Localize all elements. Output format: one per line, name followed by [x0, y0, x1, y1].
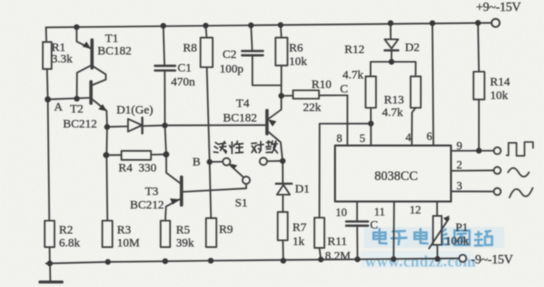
waveform square — [507, 142, 533, 156]
resistor R1 body — [43, 42, 52, 69]
resistor R4 body — [121, 151, 151, 160]
node pin11 bottom — [391, 256, 397, 262]
resistor R10 leads — [281, 94, 347, 97]
node pin10 bottom — [355, 256, 361, 262]
wire D1 R7 branch — [282, 161, 284, 184]
resistor R11 — [319, 124, 321, 260]
node D1Ge anode — [104, 124, 110, 130]
node R9 bottom — [208, 258, 214, 264]
wire node A horizontal — [48, 98, 90, 100]
wire pin 9 output — [451, 150, 494, 152]
wire T1 collector to rail — [77, 27, 91, 48]
node T1 collector on rail — [74, 24, 80, 30]
resistor R2 body — [45, 221, 55, 247]
node R3 bottom — [105, 259, 111, 265]
node R14 on rail — [475, 20, 481, 26]
node R5 bottom — [162, 258, 168, 264]
wire log contact to D1 node — [267, 160, 283, 162]
node P1 bottom — [435, 256, 441, 262]
node R12 bottom pin5 — [368, 121, 374, 127]
wire pin 3 output — [451, 190, 494, 192]
wire R12 R13 split — [371, 62, 416, 77]
node D2 on rail — [388, 20, 394, 26]
wire top supply rail — [46, 23, 491, 28]
wire T2 collector down — [92, 99, 107, 220]
diode D1 — [276, 183, 292, 185]
wire R8 B R9 vertical — [206, 26, 211, 219]
potentiometer P1 arrow — [443, 216, 449, 223]
label switch log (dui shu) CJK approximated strokes — [252, 141, 278, 153]
node C2 on rail — [248, 22, 254, 28]
node R11 bottom — [318, 257, 324, 263]
node R4 left — [103, 152, 109, 158]
terminal pin 9 — [494, 147, 501, 154]
transistor T3 collector — [166, 173, 180, 183]
resistor R7 body — [278, 212, 288, 240]
node R6 bottom — [278, 93, 284, 99]
transistor T3 arrow — [170, 198, 180, 204]
ground — [49, 264, 51, 281]
wire left vertical branch R1/R2 — [46, 27, 50, 263]
wire pin 11 — [393, 202, 396, 260]
resistor R6 — [280, 25, 283, 96]
node R14 bottom pin9 — [476, 148, 482, 154]
resistor R10 body — [293, 90, 319, 98]
diode D1(Ge) — [128, 119, 142, 132]
node R6 on rail — [278, 22, 284, 28]
wire D1(Ge) row — [107, 125, 165, 127]
transistor T3 emitter — [165, 199, 180, 221]
node C1 on rail — [160, 23, 166, 29]
resistor R3 body — [102, 221, 112, 247]
IC U1 8038CC box — [335, 146, 451, 202]
transistor T4 base bar — [265, 111, 268, 134]
transistor T1 base bar — [90, 40, 93, 68]
wire node C down to pin 8 — [346, 95, 348, 145]
wire R11 R12 row — [320, 123, 371, 125]
wire T4 base row — [165, 124, 265, 126]
watermark tint — [364, 227, 504, 248]
switch S1 pole — [243, 177, 250, 184]
wire pin 6 to rail — [432, 23, 433, 145]
transistor T3 base lead to switch — [183, 184, 246, 192]
wire pin 10 with capacitor C — [356, 202, 358, 260]
node A — [45, 96, 51, 102]
node R7 bottom — [280, 258, 286, 264]
resistor R4 leads — [106, 153, 166, 156]
transistor T2 base bar — [89, 82, 92, 103]
diode D2 — [390, 23, 392, 39]
resistor R13 — [411, 76, 421, 107]
terminal pin 3 — [494, 188, 501, 195]
transistor T2 arrow — [98, 104, 107, 111]
watermark text dianzidianlutu zhan CJK approximated — [374, 229, 493, 246]
node log contact — [280, 158, 286, 164]
capacitor C1 — [163, 26, 164, 66]
resistor R14 — [477, 23, 480, 151]
waveform triangle-sine — [510, 188, 533, 198]
label switch linear (xian xing) CJK approximated strokes — [214, 141, 243, 153]
node R8 on rail — [203, 23, 209, 29]
terminal pin 2 — [494, 167, 501, 174]
capacitor C2 — [251, 25, 252, 50]
potentiometer P1 — [436, 202, 438, 259]
switch S1 contact linear — [223, 158, 230, 165]
node B — [207, 159, 213, 165]
wire pin 2 output — [451, 169, 494, 171]
wire T1 emitter to T2 — [93, 66, 106, 85]
wire T1 lower-left to node A — [77, 65, 92, 98]
resistor R8 body — [201, 38, 213, 68]
node R2 bottom — [47, 261, 53, 267]
transistor T3 base bar — [180, 177, 183, 205]
terminal +V — [492, 19, 500, 27]
switch S1 lever arrow — [231, 164, 238, 170]
switch S1 contact log — [260, 158, 267, 165]
wire T4 collector — [268, 96, 281, 119]
wire T4 emitter — [268, 131, 283, 161]
terminal -V — [459, 255, 466, 262]
resistor R12 — [366, 76, 376, 107]
arrowheads — [83, 42, 450, 223]
transistor T4 arrow — [268, 119, 276, 126]
switch S1 lever — [229, 164, 243, 177]
node T1 base join — [74, 96, 80, 102]
node pin6 on rail — [430, 20, 436, 26]
transistor T1 arrow — [83, 42, 91, 49]
switch S1 wire B to contact — [210, 161, 223, 163]
resistor R9 body — [206, 218, 216, 247]
resistor R5 body — [161, 221, 171, 247]
node D1Ge cathode — [162, 123, 168, 129]
wire bottom rail — [46, 258, 459, 263]
node D2 cathode split — [389, 59, 395, 65]
node R4 right — [163, 151, 169, 157]
waveform sine small — [508, 168, 529, 177]
